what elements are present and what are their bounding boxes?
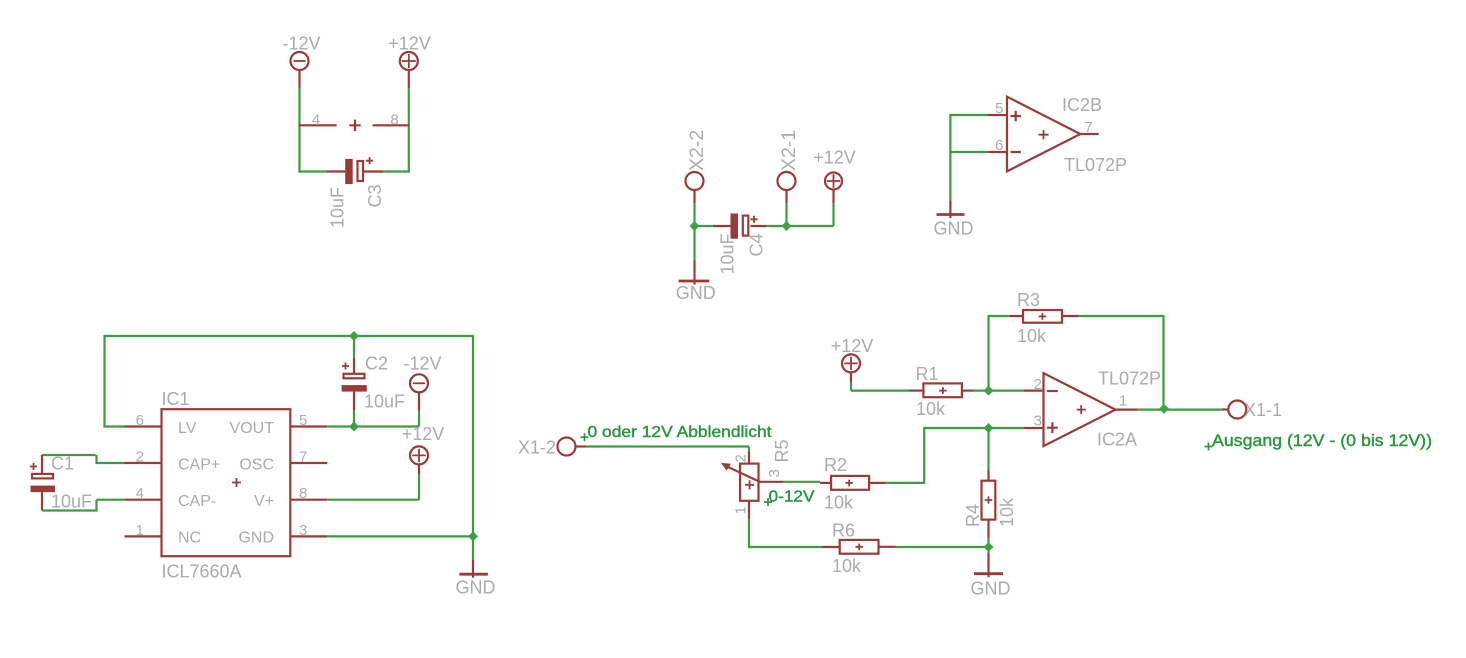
svg-text:3: 3: [1034, 413, 1042, 430]
svg-text:0 oder 12V Abblendlicht: 0 oder 12V Abblendlicht: [588, 424, 773, 441]
svg-text:NC: NC: [178, 530, 201, 547]
svg-text:TL072P: TL072P: [1064, 155, 1127, 175]
svg-text:10k: 10k: [1017, 326, 1047, 346]
svg-text:GND: GND: [456, 578, 496, 598]
svg-text:R2: R2: [824, 455, 847, 475]
svg-text:+12V: +12V: [388, 34, 431, 54]
svg-text:3: 3: [766, 469, 783, 477]
svg-text:Ausgang (12V - (0 bis 12V)): Ausgang (12V - (0 bis 12V)): [1212, 432, 1432, 450]
svg-text:5: 5: [995, 100, 1003, 117]
svg-text:10uF: 10uF: [364, 392, 405, 412]
svg-text:-12V: -12V: [282, 34, 320, 54]
svg-text:1: 1: [136, 522, 144, 539]
svg-text:6: 6: [136, 412, 144, 429]
svg-text:LV: LV: [178, 420, 197, 437]
svg-text:1: 1: [1119, 393, 1127, 410]
svg-text:8: 8: [299, 485, 307, 502]
svg-text:C2: C2: [365, 354, 388, 374]
svg-text:IC2B: IC2B: [1062, 95, 1102, 115]
svg-text:X1-1: X1-1: [1244, 400, 1282, 420]
svg-text:10k: 10k: [824, 493, 854, 513]
svg-text:X1-2: X1-2: [518, 438, 556, 458]
svg-text:+12V: +12V: [813, 148, 856, 168]
svg-text:10k: 10k: [832, 556, 862, 576]
svg-text:GND: GND: [971, 579, 1011, 599]
svg-text:2: 2: [733, 454, 750, 462]
svg-text:GND: GND: [934, 219, 974, 239]
svg-text:CAP-: CAP-: [178, 493, 216, 510]
svg-text:R6: R6: [832, 521, 855, 541]
svg-text:V+: V+: [254, 493, 274, 510]
svg-text:TL072P: TL072P: [1098, 369, 1161, 389]
svg-text:X2-2: X2-2: [686, 130, 708, 171]
svg-text:2: 2: [1034, 376, 1042, 393]
svg-text:7: 7: [1084, 119, 1092, 136]
svg-text:IC1: IC1: [162, 389, 190, 409]
svg-text:0-12V: 0-12V: [769, 489, 815, 506]
svg-text:4: 4: [136, 485, 144, 502]
svg-text:8: 8: [390, 111, 398, 128]
svg-text:C4: C4: [747, 233, 767, 256]
svg-text:X2-1: X2-1: [778, 130, 800, 171]
svg-text:7: 7: [299, 449, 307, 466]
svg-text:R4: R4: [963, 504, 983, 527]
svg-text:OSC: OSC: [239, 457, 274, 474]
svg-text:IC2A: IC2A: [1097, 430, 1137, 450]
svg-text:ICL7660A: ICL7660A: [162, 562, 242, 582]
svg-text:10k: 10k: [916, 399, 946, 419]
svg-text:10uF: 10uF: [328, 187, 348, 228]
svg-text:5: 5: [299, 412, 307, 429]
svg-text:10uF: 10uF: [718, 233, 738, 274]
svg-text:R5: R5: [772, 439, 792, 462]
svg-text:VOUT: VOUT: [230, 420, 275, 437]
svg-text:R3: R3: [1017, 290, 1040, 310]
svg-text:10uF: 10uF: [51, 492, 92, 512]
svg-text:-12V: -12V: [403, 354, 441, 374]
svg-text:6: 6: [995, 137, 1003, 154]
svg-text:+12V: +12V: [402, 424, 445, 444]
svg-text:GND: GND: [676, 283, 716, 303]
svg-text:3: 3: [299, 522, 307, 539]
svg-text:CAP+: CAP+: [178, 457, 220, 474]
svg-text:1: 1: [733, 506, 750, 514]
svg-text:C3: C3: [365, 184, 385, 207]
svg-text:C1: C1: [51, 454, 74, 474]
svg-text:GND: GND: [238, 530, 274, 547]
svg-text:4: 4: [312, 111, 320, 128]
svg-text:10k: 10k: [997, 497, 1017, 527]
svg-text:2: 2: [136, 449, 144, 466]
svg-text:+12V: +12V: [831, 336, 874, 356]
svg-text:R1: R1: [916, 364, 939, 384]
